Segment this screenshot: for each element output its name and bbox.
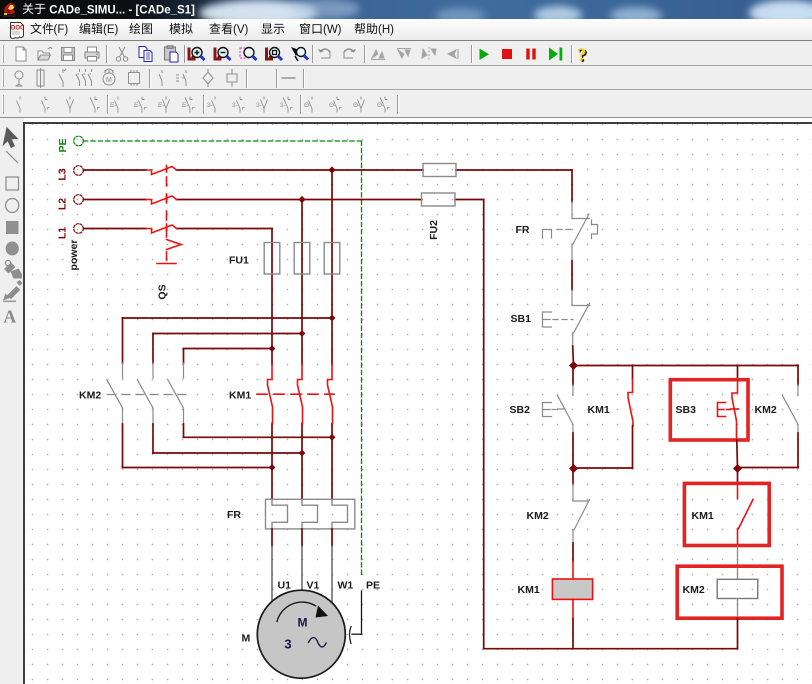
wire junction to SB2 [572,366,574,386]
wire SB2 to node B [572,433,574,469]
node L2 junction [298,196,305,203]
node L1 terminal [57,224,84,239]
node power label [68,240,80,271]
svg-text:QS: QS [157,284,169,299]
wire return left [483,200,485,649]
fuse FU1c [324,243,340,275]
contact KM1 auxiliary NO (closed) [628,379,633,426]
contact KM1 NC interlock (open) [738,484,754,546]
wire KM2 branch bottom 3 [184,424,336,441]
svg-text:KM2: KM2 [755,404,777,416]
switch QS pole L2 [146,195,177,204]
wire node C down [737,469,739,485]
svg-text:power: power [68,240,80,271]
node B junction [569,464,578,473]
highlight box KM1 NC [684,483,769,545]
svg-text:FU2: FU2 [428,220,440,240]
highlight box SB3 [670,380,748,440]
svg-text:?: ? [577,45,587,66]
wire L2 feeder [84,199,484,201]
wire motor lead U [271,529,273,604]
svg-text:L1: L1 [57,227,69,239]
wire motor lead W [331,529,333,603]
wire KM1 NC to coil KM2 [737,546,739,580]
wire L3 feeder [84,170,573,202]
wire PE to motor [350,591,362,644]
switch QS pole L1 [146,224,177,233]
wire coil KM2 to bottom rail [737,599,739,649]
wire FR to SB1 [571,261,573,290]
svg-text:DOC: DOC [11,26,25,32]
highlight box KM2 coil [677,566,782,618]
wire motor lead V [301,529,303,592]
svg-text:KM2: KM2 [527,510,549,522]
wire rail to KM2 aux [797,366,799,386]
node L3 junction [328,166,335,173]
svg-text:3-: 3- [280,102,286,109]
svg-text:3-: 3- [207,102,213,109]
wire KM2 branch top L1 [184,345,276,363]
wire KM2 aux to node C [738,433,799,468]
svg-text:SB2: SB2 [510,404,531,416]
wire SB3 to node C [736,440,739,469]
svg-text:FU1: FU1 [229,255,249,267]
fuse FU2b [422,193,456,206]
wire node B down [572,469,574,485]
node C junction [733,464,742,473]
wire bottom rail [484,648,738,650]
svg-text:KM1: KM1 [692,510,714,522]
coil KM1 (energized) [552,579,592,599]
wire phase U vertical [271,229,273,500]
fuse FU1b [294,243,310,275]
svg-text:V1: V1 [307,580,320,592]
svg-text:FR: FR [227,509,241,521]
wire control rail [574,365,799,367]
fuse FU2 label [428,220,440,240]
switch QS pole L3 [146,166,177,175]
svg-text:M: M [298,616,308,630]
wire rail to KM1 aux [632,366,634,380]
svg-text:FR: FR [516,224,530,236]
fuse FU1a [264,243,280,275]
contactor KM2 power contact 3 [168,363,184,424]
svg-text:KM1: KM1 [229,390,251,402]
wire L1 feeder [84,228,273,230]
switch QS linkage [157,177,181,264]
contactor KM1 power contact 2 [298,364,303,424]
svg-text:W1: W1 [338,580,354,592]
svg-text:PE: PE [57,138,69,152]
wire phase W vertical [331,170,333,499]
svg-text:KM2: KM2 [79,390,101,402]
svg-text:L2: L2 [57,198,69,210]
svg-text:Θ-: Θ- [377,102,384,109]
svg-text:M: M [106,77,112,84]
svg-text:KM1: KM1 [588,404,610,416]
wire KM2 branch bottom 1 [123,424,276,471]
button SB3 NO (pressed) [718,380,739,440]
svg-text:M: M [242,633,251,645]
svg-text:SB3: SB3 [676,404,697,416]
svg-text:Θ-: Θ- [329,102,336,109]
svg-text:3: 3 [284,637,291,652]
motor M1 [257,590,345,678]
svg-text:KM1: KM1 [518,584,540,596]
node U1 V1 W1 PE labels [278,580,381,592]
contactor KM2 power contact 1 [107,363,123,424]
wire KM2 branch bottom 2 [153,424,305,456]
coil KM2 [717,579,758,598]
contact FR NC (control) [543,202,598,261]
svg-text:KM2: KM2 [683,584,705,596]
svg-text:U1: U1 [278,580,292,592]
button SB2 NO [543,385,574,433]
contactor KM1 power contact 1 [268,364,273,424]
wire KM2 NC to coil KM1 [572,543,574,579]
svg-text:3-: 3- [232,102,238,109]
svg-text:A: A [4,307,17,327]
wire KM2 branch top L3 [123,315,336,363]
node junction A [569,361,578,370]
button SB1 NC [543,290,591,346]
svg-text:PE: PE [366,580,380,592]
contactor KM2 linkage [108,394,187,396]
svg-text:Θ-: Θ- [304,102,311,109]
wire coil KM1 to bottom rail [572,599,574,648]
contactor KM1 power contact 3 [328,364,333,424]
node L2 terminal [57,195,84,210]
node L3 terminal [57,166,84,181]
contactor KM1 linkage [257,393,334,395]
wire KM2 branch top L2 [153,330,305,363]
wire PE dashed [84,141,362,576]
wire KM1 aux to node B [574,426,633,468]
svg-text:L3: L3 [57,168,69,180]
contact KM2 NC interlock [573,484,590,543]
wire SB1 to junction [572,346,575,366]
fuse FU2a [423,164,456,177]
svg-text:SB1: SB1 [511,313,532,325]
contact KM2 auxiliary NO (open) [783,385,799,433]
contactor KM2 power contact 2 [138,363,154,424]
wire phase V vertical [301,200,303,500]
svg-text:3-: 3- [256,102,262,109]
node PE terminal [57,136,83,152]
thermal relay FR element [266,499,355,529]
wire rail to SB3 [737,366,739,381]
switch QS label [157,284,169,299]
